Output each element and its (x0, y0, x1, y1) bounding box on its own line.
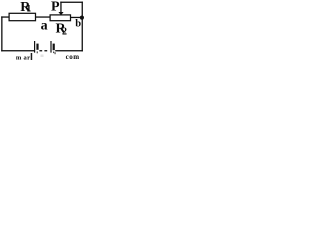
wire top horizontal (wiper to right rail) (60, 2, 83, 3)
junction dot node b (80, 16, 84, 20)
battery cell 1 long plate (34, 41, 35, 53)
svg-text:1: 1 (26, 4, 31, 14)
watermark faint speck mid (41, 55, 44, 58)
svg-text:P: P (51, 0, 60, 15)
potentiometer R2 (box) (50, 15, 70, 21)
wire bottom left segment (1, 50, 34, 51)
battery cell 2 long plate (50, 41, 51, 53)
battery speck below cell 2 plate (53, 52, 54, 54)
watermark faint speck 5 (54, 52, 56, 54)
svg-text:a: a (41, 19, 48, 34)
svg-text:m ar: m ar (16, 54, 30, 60)
wire right vertical rail (82, 2, 83, 52)
battery cell 1 short thick plate (36, 44, 38, 50)
battery cell 2 short thick plate (53, 44, 55, 51)
wire dashed (more cells) dash 1 (39, 50, 42, 51)
battery speck below cell 1 plate (37, 51, 38, 53)
wire top-left horizontal to R1 (1, 16, 9, 17)
wire R1 to R2 (36, 16, 50, 17)
wire left vertical (1, 16, 2, 51)
svg-text:com: com (66, 53, 80, 60)
wiper wire vertical (60, 2, 61, 13)
svg-text:2: 2 (62, 27, 67, 38)
watermark dark bar (31, 53, 33, 60)
svg-text:b: b (75, 19, 81, 30)
wire R2 right terminal to right rail (70, 17, 83, 18)
wiper arrowhead (58, 12, 63, 15)
wire dashed (more cells) dash 2 (44, 50, 47, 51)
wire bottom right segment (55, 50, 83, 51)
resistor R1 (9, 13, 35, 20)
